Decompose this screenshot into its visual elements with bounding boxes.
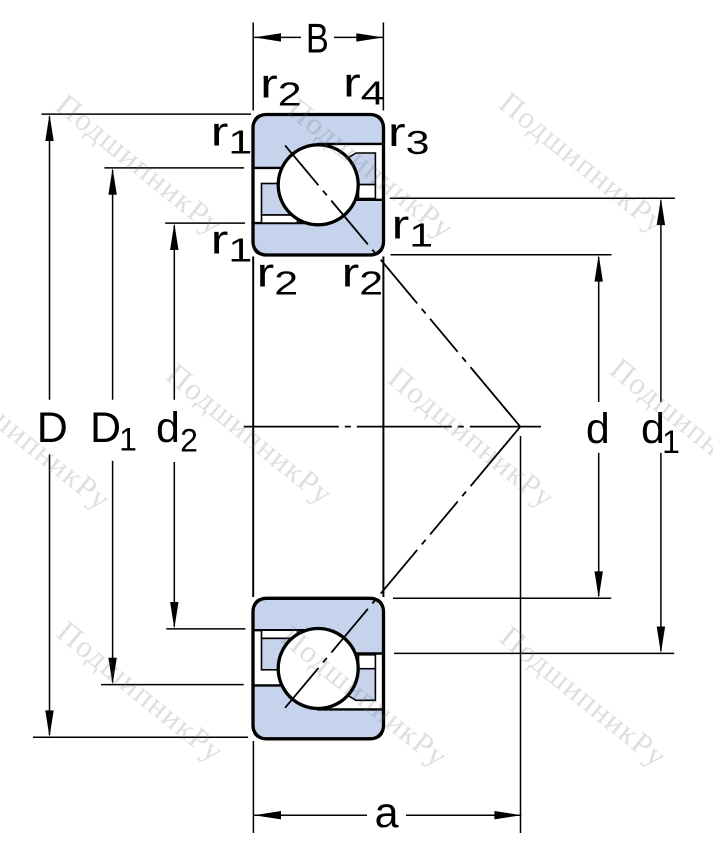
dimension d: [391, 255, 612, 599]
extension line B left: [252, 23, 254, 111]
extension line B right: [382, 23, 384, 111]
svg-text:d: d: [156, 404, 180, 452]
dimension D1: [90, 168, 244, 685]
dimension D: [33, 114, 251, 737]
bottom bearing section (mirrored): [253, 598, 384, 739]
svg-text:D: D: [90, 404, 121, 452]
bearing left face line: [252, 257, 254, 598]
dimension a: [254, 436, 521, 837]
axis centerline: [244, 426, 541, 428]
contact line bottom: [285, 427, 520, 708]
bearing right face line: [382, 257, 384, 598]
svg-text:1: 1: [119, 421, 137, 457]
top bearing section: [253, 115, 384, 256]
dimension d1: [390, 198, 680, 653]
contact line top: [285, 145, 520, 426]
svg-text:2: 2: [180, 423, 198, 459]
svg-text:a: a: [375, 789, 399, 837]
dimension d2: [156, 223, 245, 629]
dimension B: [254, 15, 383, 62]
extension line a left: [252, 741, 254, 833]
svg-text:d: d: [586, 405, 610, 453]
svg-text:B: B: [306, 15, 329, 62]
